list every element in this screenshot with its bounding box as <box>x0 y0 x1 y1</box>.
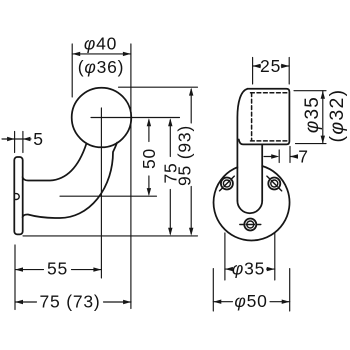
stem-to-plate U slot <box>237 201 262 213</box>
bracket arm top-left outline <box>23 144 87 181</box>
wall plate circle (front view) <box>214 166 290 240</box>
knob center line vertical <box>100 108 102 278</box>
cup body outline <box>239 89 290 145</box>
extension line top of knob <box>119 86 198 88</box>
svg-text:φ40: φ40 <box>84 34 117 54</box>
svg-text:75 (73): 75 (73) <box>39 292 100 312</box>
dimension phi50: dim line <box>213 301 289 303</box>
dimension phi35 bolt circle: arrowheads <box>225 267 275 271</box>
dimension 55: left extension line <box>14 245 16 310</box>
stem right outline <box>261 144 263 200</box>
dimension 75 line <box>169 120 171 234</box>
dimension phi35 vertical: dim line <box>322 91 324 144</box>
dimension 25: arrowheads <box>253 64 290 68</box>
svg-text:φ35: φ35 <box>232 259 265 279</box>
dimension 5: extension lines <box>15 132 23 153</box>
dimension 5: dim line <box>2 138 31 140</box>
dimension phi35 bolt circle: dim line <box>225 268 275 270</box>
dimension phi50: extension lines <box>213 269 289 311</box>
svg-text:5: 5 <box>33 129 44 149</box>
svg-text:(φ32): (φ32) <box>326 89 348 143</box>
knob circle (side view ball) <box>72 88 132 148</box>
dimension 95(93) arrowheads <box>189 88 193 236</box>
svg-text:7: 7 <box>298 147 309 167</box>
dimension phi40: arrowheads <box>72 52 131 56</box>
cup dome and arm left outline <box>237 89 247 201</box>
extension line plate centerline <box>60 195 157 197</box>
wall plate (side view) <box>14 157 22 234</box>
dimension 95(93) line <box>190 90 192 234</box>
cup hidden bore dashed lines <box>251 93 289 141</box>
dimension 55: arrowheads <box>15 267 101 271</box>
dimension phi50: arrowheads <box>213 300 289 304</box>
dimension 25: extension lines <box>253 58 290 85</box>
svg-text:(φ36): (φ36) <box>78 57 125 77</box>
dimension phi35 vertical (cup): extension lines <box>294 91 326 144</box>
screw hole bottom <box>240 219 261 231</box>
dimension 75(73): dim line <box>15 301 131 303</box>
dimension 7: dim line + arrows pointing inward <box>264 156 297 158</box>
svg-text:φ50: φ50 <box>234 291 267 311</box>
screw hole top-right <box>267 176 282 191</box>
dimension 7: extension lines <box>279 147 290 163</box>
dimension 75(73): arrowheads <box>15 300 131 304</box>
dimension phi35 bolt circle: extension lines <box>225 233 275 280</box>
svg-text:25: 25 <box>260 56 281 76</box>
knob center cross horizontal <box>91 117 180 119</box>
svg-text:55: 55 <box>47 259 68 279</box>
dimension phi40: extension lines <box>72 44 131 309</box>
svg-text:50: 50 <box>139 148 159 169</box>
dimension 5: arrowheads <box>7 137 30 141</box>
bracket arm bottom outline <box>23 143 118 218</box>
dimension 75 arrowheads <box>168 118 172 235</box>
dimension phi40: dim line <box>72 53 131 55</box>
dimension 25: dim line stubs <box>253 65 290 67</box>
screw hole top-left <box>220 176 235 191</box>
svg-text:φ35: φ35 <box>302 96 323 133</box>
dimension 55: dim line <box>15 269 101 271</box>
dimension phi35 vertical: arrowheads <box>321 91 325 144</box>
extension line plate bottom <box>23 235 198 237</box>
svg-text:95 (93): 95 (93) <box>175 125 195 186</box>
dimension 50 arrowheads <box>147 118 151 196</box>
dimension 50 line <box>148 120 150 194</box>
plate screw hole (side view) <box>15 194 19 200</box>
